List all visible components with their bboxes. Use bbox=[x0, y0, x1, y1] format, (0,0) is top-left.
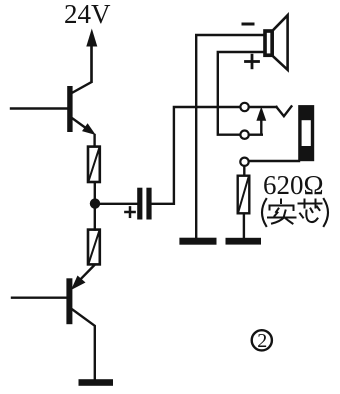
speaker LS bbox=[265, 15, 288, 70]
figure number 2 circled bbox=[252, 330, 272, 352]
polarity + label of C1 bbox=[125, 207, 134, 216]
wire C1 to jack tip contact bbox=[152, 107, 241, 204]
jack spring contact V bbox=[276, 106, 291, 116]
wire base of Q2 bbox=[12, 297, 66, 299]
node A junction dot bbox=[90, 198, 100, 208]
resistor R3 bbox=[238, 176, 250, 214]
capacitor C1 bbox=[137, 188, 151, 220]
label - (speaker minus) bbox=[243, 23, 253, 26]
svg-text:620Ω: 620Ω bbox=[263, 170, 324, 200]
wire ring terminal to movable contact bbox=[249, 133, 262, 135]
jack J1 ring terminal bbox=[240, 131, 248, 139]
wire R2 to Q2 emitter bbox=[71, 266, 94, 291]
value label character shi bbox=[268, 200, 296, 224]
jack plug body bbox=[298, 105, 314, 161]
resistor R1 bbox=[88, 147, 100, 182]
label + (speaker plus) bbox=[246, 55, 259, 68]
wire R3 to ground bbox=[243, 214, 245, 238]
wire speaker minus to ground bbox=[196, 35, 263, 238]
ground below R3 bbox=[226, 238, 262, 245]
jack J1 sleeve terminal bbox=[240, 158, 248, 166]
wire node A to R2 bbox=[94, 207, 96, 230]
transistor Q2 (PNP) bbox=[66, 278, 94, 379]
wire sleeve terminal to plug body bbox=[249, 160, 299, 162]
wire speaker plus to jack ring contact bbox=[218, 52, 264, 135]
wire Q1 emitter to R1 bbox=[93, 135, 95, 146]
power arrow 24V bbox=[86, 29, 97, 82]
svg-text:24V: 24V bbox=[64, 0, 111, 29]
value label (shixin) parens bbox=[262, 199, 328, 226]
wire R1 to node A bbox=[94, 183, 96, 200]
ground below Q2 bbox=[79, 379, 114, 386]
svg-text:2: 2 bbox=[257, 330, 267, 352]
wire node A to C1 bbox=[95, 203, 137, 205]
wire base of Q1 bbox=[11, 107, 67, 109]
resistor R2 bbox=[88, 230, 100, 265]
wire sleeve terminal to R3 bbox=[243, 166, 245, 175]
transistor Q1 (NPN) bbox=[67, 46, 96, 135]
wire tip terminal to spring contact bbox=[249, 106, 277, 108]
value label character xin bbox=[299, 200, 322, 223]
ground below speaker minus wire bbox=[179, 238, 216, 245]
jack J1 tip terminal bbox=[240, 103, 248, 111]
jack movable contact arrow bbox=[256, 107, 266, 135]
